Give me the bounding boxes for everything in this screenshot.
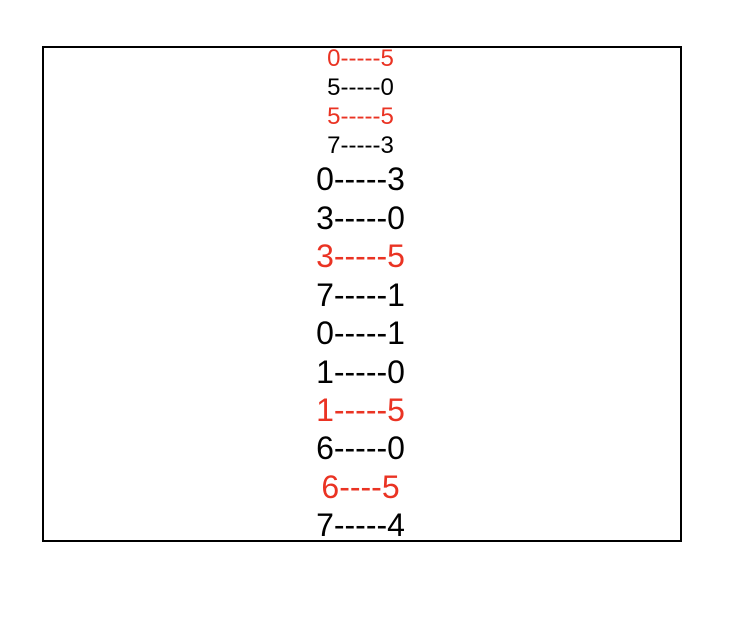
bordered output box frame [42, 46, 682, 542]
move list [40, 45, 681, 544]
